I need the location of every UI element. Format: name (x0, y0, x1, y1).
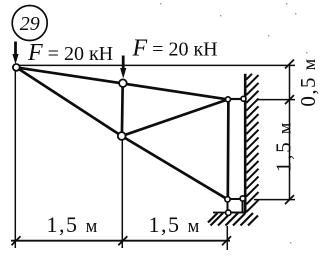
right extension line at support level (254, 199, 295, 201)
svg-text:29: 29 (20, 13, 40, 35)
member BC vertical (121, 83, 124, 136)
svg-text:F = 20 кН: F = 20 кН (132, 36, 218, 62)
support pin circle top right (240, 196, 245, 201)
bottom dimension line (11, 240, 230, 242)
ground line of bottom support (213, 212, 245, 214)
right dimension tick top (285, 60, 294, 69)
node A pin circle (13, 64, 20, 71)
right dimension line (289, 64, 291, 200)
right dimension tick bottom (285, 195, 294, 204)
member CD diagonal (122, 99, 228, 136)
support rectangle at node G (228, 199, 243, 213)
extension line below support (226, 226, 228, 250)
member AD top chord (16, 67, 228, 99)
middle extension line below node C (121, 136, 123, 248)
ground hatching of bottom support (208, 213, 258, 226)
right dimension tick middle (285, 95, 294, 104)
bottom dimension tick left (12, 236, 21, 245)
node G pin circle (225, 197, 230, 202)
wall hatching band (246, 74, 258, 212)
force arrow F2 at node B (120, 56, 126, 79)
node B pin circle (119, 79, 127, 87)
support pin circle bottom left (226, 210, 231, 215)
left extension line below node A (14, 69, 16, 248)
force arrow F1 at node A (12, 42, 18, 65)
problem number circle 29 (12, 6, 47, 41)
svg-text:0,5 м: 0,5 м (296, 57, 320, 106)
bottom dimension tick middle (118, 236, 127, 245)
faint scan speckles (160, 3, 307, 243)
wall face line (244, 74, 247, 213)
wall pin circle E (241, 96, 246, 101)
bottom dimension tick right (222, 236, 231, 245)
svg-text:F = 20 кН: F = 20 кН (27, 40, 113, 66)
member CG diagonal (122, 136, 228, 199)
node D pin circle (226, 97, 231, 102)
right extension line at wall pin level (258, 99, 295, 101)
link bar DE to wall pin (228, 98, 244, 100)
node C pin circle (118, 132, 126, 140)
member DG vertical (226, 99, 229, 199)
member AC diagonal (16, 67, 121, 136)
top extension line from node A to right dimension line (17, 64, 295, 66)
svg-text:1,5 м: 1,5 м (271, 121, 295, 172)
